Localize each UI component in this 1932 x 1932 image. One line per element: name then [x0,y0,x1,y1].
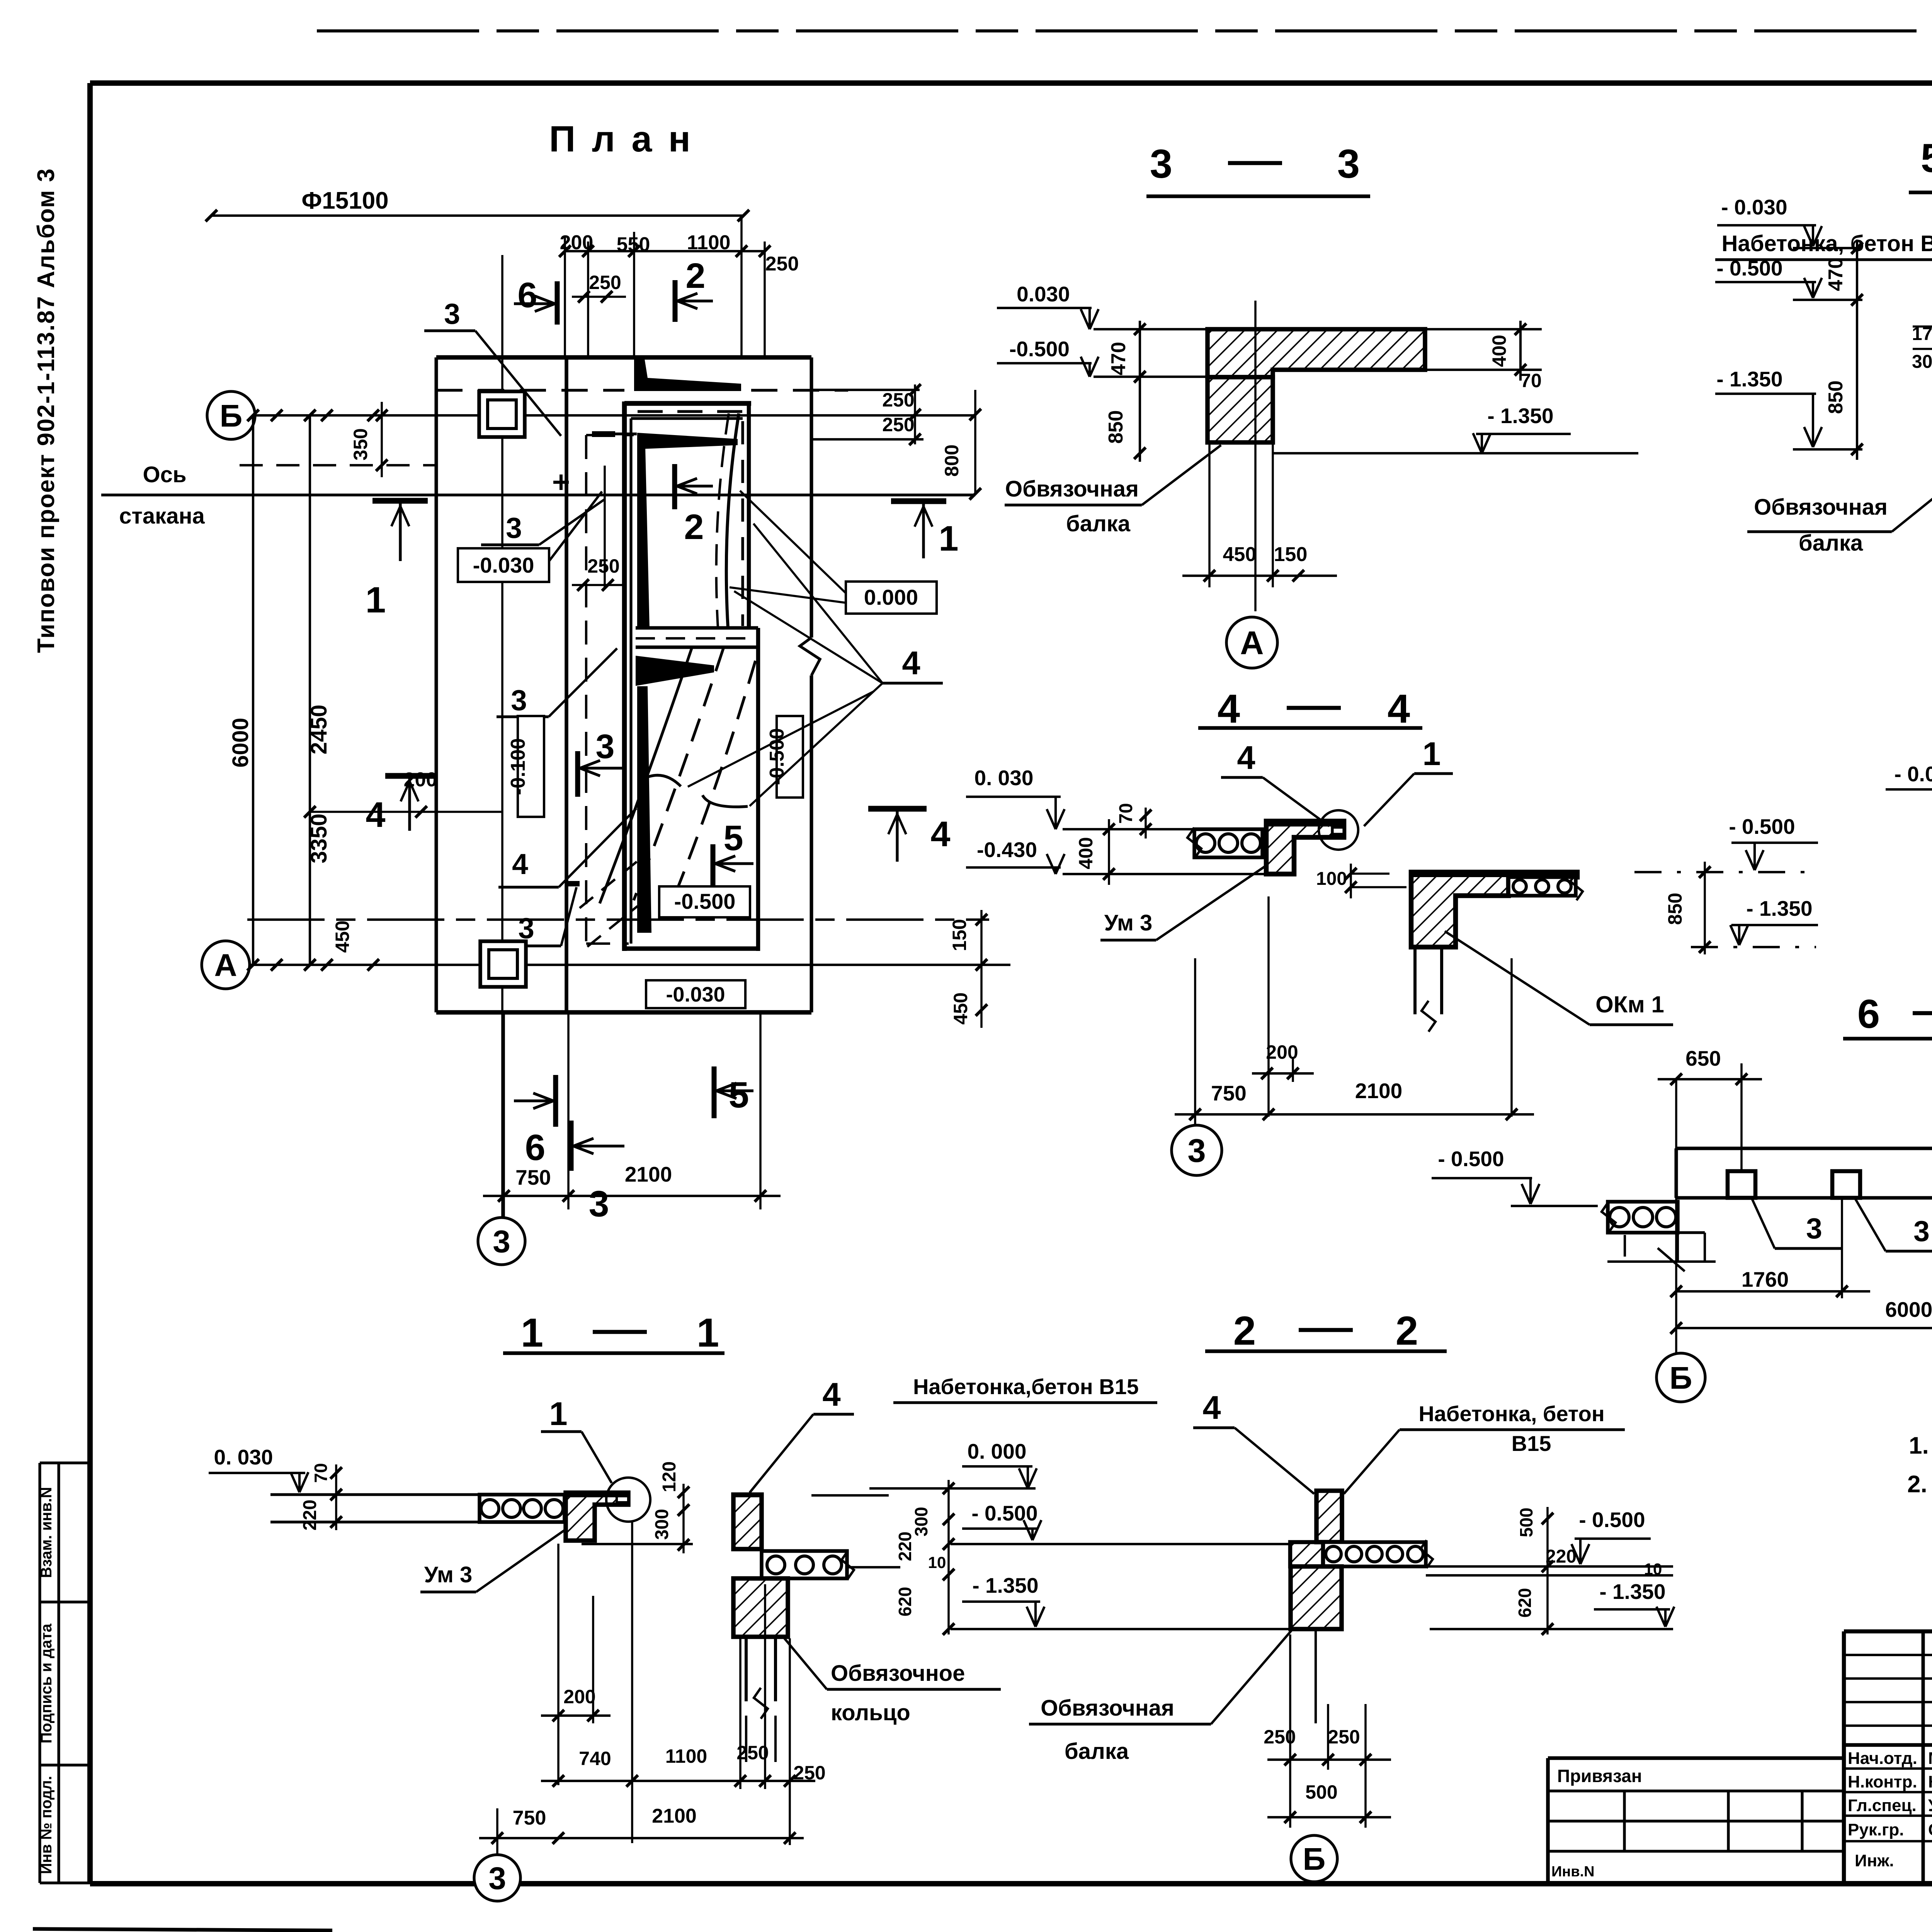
svg-text:1: 1 [549,1396,567,1432]
svg-text:3: 3 [596,727,615,765]
svg-text:- 1.350: - 1.350 [1599,1580,1665,1604]
svg-text:Набетонка, бетон В15: Набетонка, бетон В15 [1721,231,1932,256]
svg-text:-0.030: -0.030 [473,553,534,577]
svg-text:Рук.гр.: Рук.гр. [1848,1820,1904,1839]
svg-text:3: 3 [444,298,460,330]
plan right dims 150 450 [980,910,983,1028]
svg-text:В15: В15 [1512,1431,1551,1456]
svg-text:4: 4 [1237,740,1255,776]
3-3 dim 400 70 right [1519,321,1522,381]
svg-text:620: 620 [895,1587,915,1617]
marker 5 bottom [712,1066,717,1118]
svg-text:3: 3 [1150,141,1172,187]
svg-text:3: 3 [488,1861,506,1896]
section marker 4 left [385,773,435,779]
svg-text:-0.500: -0.500 [674,889,736,913]
svg-text:Взам. инв.N: Взам. инв.N [38,1487,55,1578]
2-2 right extension lines [1426,1565,1673,1568]
6-6 left hollow slab [1608,1202,1678,1233]
4-4 extension lines left [1063,828,1194,830]
svg-text:5: 5 [729,1075,749,1116]
svg-text:Курленко: Курленко [1928,1772,1932,1791]
svg-text:850: 850 [1105,410,1127,444]
svg-text:1: 1 [1422,736,1440,772]
axis B line [255,414,975,417]
column square top [479,391,525,437]
axis B circle [207,391,255,439]
cross mark on axis [560,474,563,490]
title block privyazan box [1548,1756,1844,1760]
1-1 right element ring hatched lower [733,1578,788,1637]
svg-text:4: 4 [822,1376,840,1413]
svg-text:2100: 2100 [1355,1079,1402,1103]
svg-text:3: 3 [1187,1133,1206,1169]
svg-text:70: 70 [1520,370,1542,391]
svg-text:4: 4 [512,848,528,880]
plan well inner offset lines [629,418,632,944]
plan axis 3 vertical line [501,255,503,1217]
plan dashed construction rectangle [585,435,587,944]
2-2 slab band with circles [1323,1542,1426,1566]
svg-text:800: 800 [941,444,963,476]
svg-text:-0.030: -0.030 [666,983,725,1006]
svg-text:4: 4 [366,795,385,835]
svg-text:500: 500 [1305,1781,1337,1803]
svg-text:Ф15100: Ф15100 [301,187,388,214]
svg-text:- 0.500: - 0.500 [971,1501,1037,1525]
svg-text:250: 250 [882,389,914,411]
top fold dash-dot line [317,29,1932,32]
svg-text:Б: Б [1670,1361,1692,1396]
elevation box -0.500 rotated right [777,716,803,798]
svg-text:4: 4 [930,815,950,854]
plan black strip left inner lower [637,686,651,933]
plan right dims 250 250 [811,389,920,391]
4-4 bottom dims 750 2100 [1194,958,1196,1125]
svg-text:750: 750 [515,1165,551,1189]
plan left dim line 2450 3350 [309,415,311,965]
svg-text:1100: 1100 [687,231,731,254]
title block personnel rows [1844,1767,1932,1770]
4-4 axis circle 3 [1172,1125,1222,1175]
svg-text:3: 3 [589,1184,609,1225]
3-3 wall below hatched [1207,377,1273,442]
plan wall dashed line y1009 [436,389,624,391]
plan extension lines above [564,236,566,357]
svg-text:0.030: 0.030 [1017,282,1070,306]
2-2 lower column hatched [1291,1566,1342,1629]
4-4 dash line right bottom [1691,946,1816,948]
section marker 3 mid plan [575,751,580,797]
plan curved wall upper chamber [726,413,739,628]
1-1 floor slab lines left [270,1493,480,1496]
plan top dimension chain 200 550 1100 250 [565,250,765,252]
1-1 extension verticals [557,1544,560,1785]
svg-text:Ось: Ось [143,462,186,487]
4-4 element Um3 hatched [1266,821,1344,874]
svg-text:3: 3 [493,1224,510,1259]
svg-text:250: 250 [587,555,619,577]
svg-text:А: А [214,948,237,983]
svg-text:Обвязочная: Обвязочная [1754,495,1888,520]
title block outer [1844,1629,1932,1634]
svg-text:3: 3 [1806,1212,1822,1245]
title block upper small table [1844,1654,1932,1656]
svg-text:2: 2 [1233,1308,1256,1354]
2-2 left stub hatched [1290,1542,1323,1566]
svg-text:2100: 2100 [652,1805,697,1827]
plan hook arcs lower chamber [641,775,681,786]
plan right edge break mark [800,638,820,675]
1-1 hollow core slab [480,1495,565,1522]
svg-text:850: 850 [1825,381,1847,414]
svg-text:350: 350 [350,428,371,460]
marker 6 bottom [553,1075,558,1127]
1-1 detail circle [606,1478,650,1522]
svg-text:1: 1 [939,519,958,558]
1-1 ring below walls [745,1637,748,1701]
svg-text:- 0.030: - 0.030 [1894,762,1932,786]
svg-text:3: 3 [511,684,527,716]
svg-text:250: 250 [882,414,914,435]
4-4 slab with circles right [1509,877,1576,896]
svg-text:кольцо: кольцо [831,1700,910,1725]
plan well outer rect [622,401,627,951]
axis A line [250,964,1010,966]
marker 3 bottom [569,1121,574,1171]
svg-text:- 0.500: - 0.500 [1716,256,1782,280]
plan black wedge bottom-left of band [636,656,714,686]
svg-text:470: 470 [1107,342,1130,376]
svg-text:4: 4 [1202,1389,1221,1426]
svg-text:6: 6 [525,1127,546,1168]
3-3 right extension lines [1425,328,1542,330]
svg-text:Набетонка,бетон В15: Набетонка,бетон В15 [913,1374,1139,1399]
elevation box -0.100 rotated [518,716,544,817]
svg-text:-0.500: -0.500 [1009,337,1070,361]
svg-text:Б: Б [220,398,243,434]
section marker 4 right [868,806,927,812]
svg-text:450: 450 [950,992,971,1024]
plan outer rectangle [436,355,811,360]
svg-text:120: 120 [659,1461,680,1492]
plan dashed line y1204 [240,464,437,466]
svg-text:Типовои проект 902-1-113.87: Типовои проект 902-1-113.87 Альбом 3 [33,168,60,653]
svg-text:- 1.350: - 1.350 [1746,896,1812,920]
svg-text:- 1.350: - 1.350 [1487,404,1553,428]
6-6 below slab lines [1678,1231,1705,1234]
plan bottom dims 750 2100 [503,1012,505,1217]
svg-text:1: 1 [521,1310,543,1355]
svg-text:200: 200 [563,1686,595,1708]
svg-text:- 0.500: - 0.500 [1438,1147,1504,1171]
plan left dim line 6000 [252,415,254,965]
svg-text:-0.430: -0.430 [977,838,1037,862]
svg-text:4: 4 [902,645,920,682]
leader from -0.030 box [549,492,602,561]
axis A circle [202,941,250,989]
plan black strip left inner upper [637,433,650,628]
plan section line target y1123 [603,432,637,435]
svg-text:250: 250 [793,1762,825,1784]
2-2 left extension lines [869,1487,1036,1490]
svg-text:0.000: 0.000 [864,585,918,609]
svg-text:4: 4 [1218,686,1240,731]
1-1 right element slab [762,1551,847,1578]
svg-text:2100: 2100 [625,1162,672,1186]
svg-text:2: 2 [1396,1308,1418,1354]
4-4 hollow core slab left [1194,829,1262,857]
svg-text:Обвязочная: Обвязочная [1005,476,1139,502]
elevation box -0.500 in well [659,886,750,917]
svg-text:- 0.030: - 0.030 [1721,195,1787,219]
svg-text:2. Армирование см. лист 20.: 2. Армирование см. лист 20. [1907,1471,1932,1498]
section marker 1 left [372,498,428,504]
plan dash-dot line y2380 [247,918,989,921]
5-5 dim chain 470 850 left [1856,240,1858,460]
6-6 axis circle B [1656,1353,1705,1402]
svg-text:- 1.350: - 1.350 [1716,367,1782,391]
2-2 leaders below [1315,1629,1317,1723]
svg-text:1. Участок замаркирован на: 1. Участок замаркирован на листе 15. [1909,1432,1932,1459]
column square bottom [480,941,526,987]
svg-text:70: 70 [311,1463,331,1483]
svg-text:220: 220 [895,1532,915,1561]
3-3 axis circle A [1226,617,1277,668]
svg-text:150: 150 [949,919,970,951]
svg-text:0. 000: 0. 000 [968,1439,1027,1463]
svg-text:1: 1 [697,1310,719,1355]
svg-text:3: 3 [1913,1215,1930,1247]
svg-text:Манкаускас: Манкаускас [1928,1749,1932,1768]
3-3 center line [1254,301,1257,611]
svg-text:балка: балка [1799,531,1863,556]
svg-text:2: 2 [685,256,705,296]
bottom-left scan smudge [33,1929,332,1930]
plan black wedge top [634,359,741,391]
svg-text:0. 030: 0. 030 [214,1445,273,1469]
2-2 bottom dims 250 250 500 [1289,1634,1291,1828]
svg-text:400: 400 [1075,837,1097,869]
svg-text:Инв № подл.: Инв № подл. [38,1776,55,1874]
svg-text:6: 6 [1857,992,1880,1037]
4-4 dash line right top [1634,871,1816,873]
3-3 extension lines left [1094,328,1207,330]
svg-text:Ум 3: Ум 3 [424,1562,472,1587]
svg-text:450: 450 [332,920,353,952]
4-4 OKm1 below walls [1413,947,1417,1014]
leaders from 0.000 box [740,491,846,593]
svg-text:250: 250 [1264,1726,1296,1748]
svg-text:-0.100: -0.100 [507,738,529,795]
svg-text:балка: балка [1066,511,1131,536]
1-1 right level lines [811,1494,889,1497]
elevation box -0.030 plan left [458,548,549,582]
svg-text:- 1.350: - 1.350 [972,1573,1038,1597]
svg-text:3: 3 [506,512,522,544]
elevation box 0.000 right [846,582,937,614]
svg-text:Подпись и дата: Подпись и дата [38,1623,55,1743]
svg-text:Ум 3: Ум 3 [1104,910,1152,935]
svg-text:Укропова: Укропова [1928,1796,1932,1815]
svg-text:250: 250 [765,253,799,275]
svg-text:Гл.спец.: Гл.спец. [1848,1796,1917,1815]
4-4 detail circle [1319,810,1358,850]
plan curved dashed arcs lower chamber [600,648,692,903]
1-1 bottom dims 740 1100 250 250 [739,1638,742,1789]
svg-text:1: 1 [366,580,386,621]
svg-text:А: А [1240,625,1264,662]
plan short dashed diagonals lower left [580,862,637,908]
svg-text:6000: 6000 [228,718,253,767]
6-6 key block 2 [1832,1171,1860,1198]
svg-text:- 0.500: - 0.500 [1729,815,1795,838]
svg-text:балка: балка [1065,1739,1129,1764]
3-3 dim chain 470 850 [1139,321,1141,462]
svg-text:Набетонка, бетон: Набетонка, бетон [1418,1401,1604,1426]
elevation box -0.030 bottom [646,980,745,1008]
svg-text:Н.контр.: Н.контр. [1848,1772,1917,1791]
svg-text:Привязан: Привязан [1557,1766,1642,1786]
svg-text:400: 400 [1488,335,1510,367]
svg-text:500: 500 [1516,1508,1536,1537]
1-1 bottom dims 750 2100 [496,1808,498,1855]
1-1 right element ring hatched upper [733,1495,762,1549]
svg-text:ОКм 1: ОКм 1 [1595,992,1664,1017]
svg-text:70: 70 [1116,803,1136,823]
left margin stamp boxes [38,1463,41,1883]
6-6 key block 1 [1728,1171,1755,1198]
svg-text:6000: 6000 [1885,1298,1932,1321]
svg-text:4: 4 [1388,686,1410,731]
svg-text:Обвязочное: Обвязочное [831,1661,965,1686]
svg-text:- 0.500: - 0.500 [1579,1508,1645,1532]
svg-text:Б: Б [1303,1842,1326,1877]
svg-text:740: 740 [579,1748,611,1769]
black tick on wall [592,431,615,437]
svg-text:10: 10 [928,1553,946,1571]
svg-text:0. 030: 0. 030 [975,766,1034,790]
svg-text:750: 750 [1211,1081,1247,1105]
plan inner wall vertical [565,357,568,1012]
svg-text:300: 300 [1912,352,1932,372]
svg-text:1100: 1100 [665,1745,707,1767]
axis 3 circle below plan [478,1218,525,1265]
svg-text:850: 850 [1664,893,1686,925]
section marker 1 right [891,498,946,504]
2-2 axis circle B [1291,1835,1337,1882]
sheet border frame [90,80,1932,86]
svg-text:750: 750 [513,1807,546,1829]
svg-text:250: 250 [589,272,621,293]
3-3 beam slab hatched [1207,329,1425,377]
plan black wedge inner top [637,433,738,449]
3-3 floor line right [1273,452,1638,454]
svg-text:300: 300 [652,1509,672,1540]
svg-text:5: 5 [1921,136,1932,181]
svg-text:2: 2 [684,507,704,547]
svg-text:Нач.отд.: Нач.отд. [1848,1749,1917,1768]
svg-text:150: 150 [1274,543,1308,566]
svg-text:620: 620 [1515,1588,1535,1618]
svg-text:100: 100 [1316,869,1347,889]
black tick on dashed line lower [565,881,580,886]
svg-text:250: 250 [1328,1726,1360,1748]
6-6 slab body [1676,1147,1932,1150]
svg-text:Инж.: Инж. [1855,1851,1894,1870]
svg-text:5: 5 [723,818,743,858]
svg-text:Суворов: Суворов [1928,1820,1932,1839]
svg-text:1760: 1760 [1742,1267,1789,1291]
1-1 element Um3 hatched [566,1493,628,1541]
svg-text:450: 450 [1223,543,1257,566]
svg-text:650: 650 [1685,1046,1721,1070]
5-5 level line -0.030 [1793,247,1862,249]
3-3 bottom dims 450 150 [1208,442,1211,587]
svg-text:П л а н: П л а н [549,119,694,160]
section marker 2 mid [672,464,677,509]
2-2 upper column hatched [1316,1491,1342,1542]
plan well inner dashed top [638,410,746,413]
svg-text:2450: 2450 [306,704,332,754]
svg-text:220: 220 [300,1500,320,1531]
section marker 5 in well [711,844,716,889]
svg-text:250: 250 [736,1742,769,1764]
1-1 axis circle 3 [474,1855,520,1901]
svg-text:Обвязочная: Обвязочная [1041,1696,1174,1721]
svg-text:стакана: стакана [119,503,205,529]
svg-text:6: 6 [517,276,537,315]
svg-text:Инв.N: Инв.N [1551,1864,1595,1880]
4-4 element OKm1 hatched [1411,872,1577,947]
svg-text:3: 3 [1337,141,1360,187]
plan mid band between chambers [636,626,758,630]
svg-text:3350: 3350 [306,813,332,863]
svg-text:470: 470 [1825,258,1847,291]
